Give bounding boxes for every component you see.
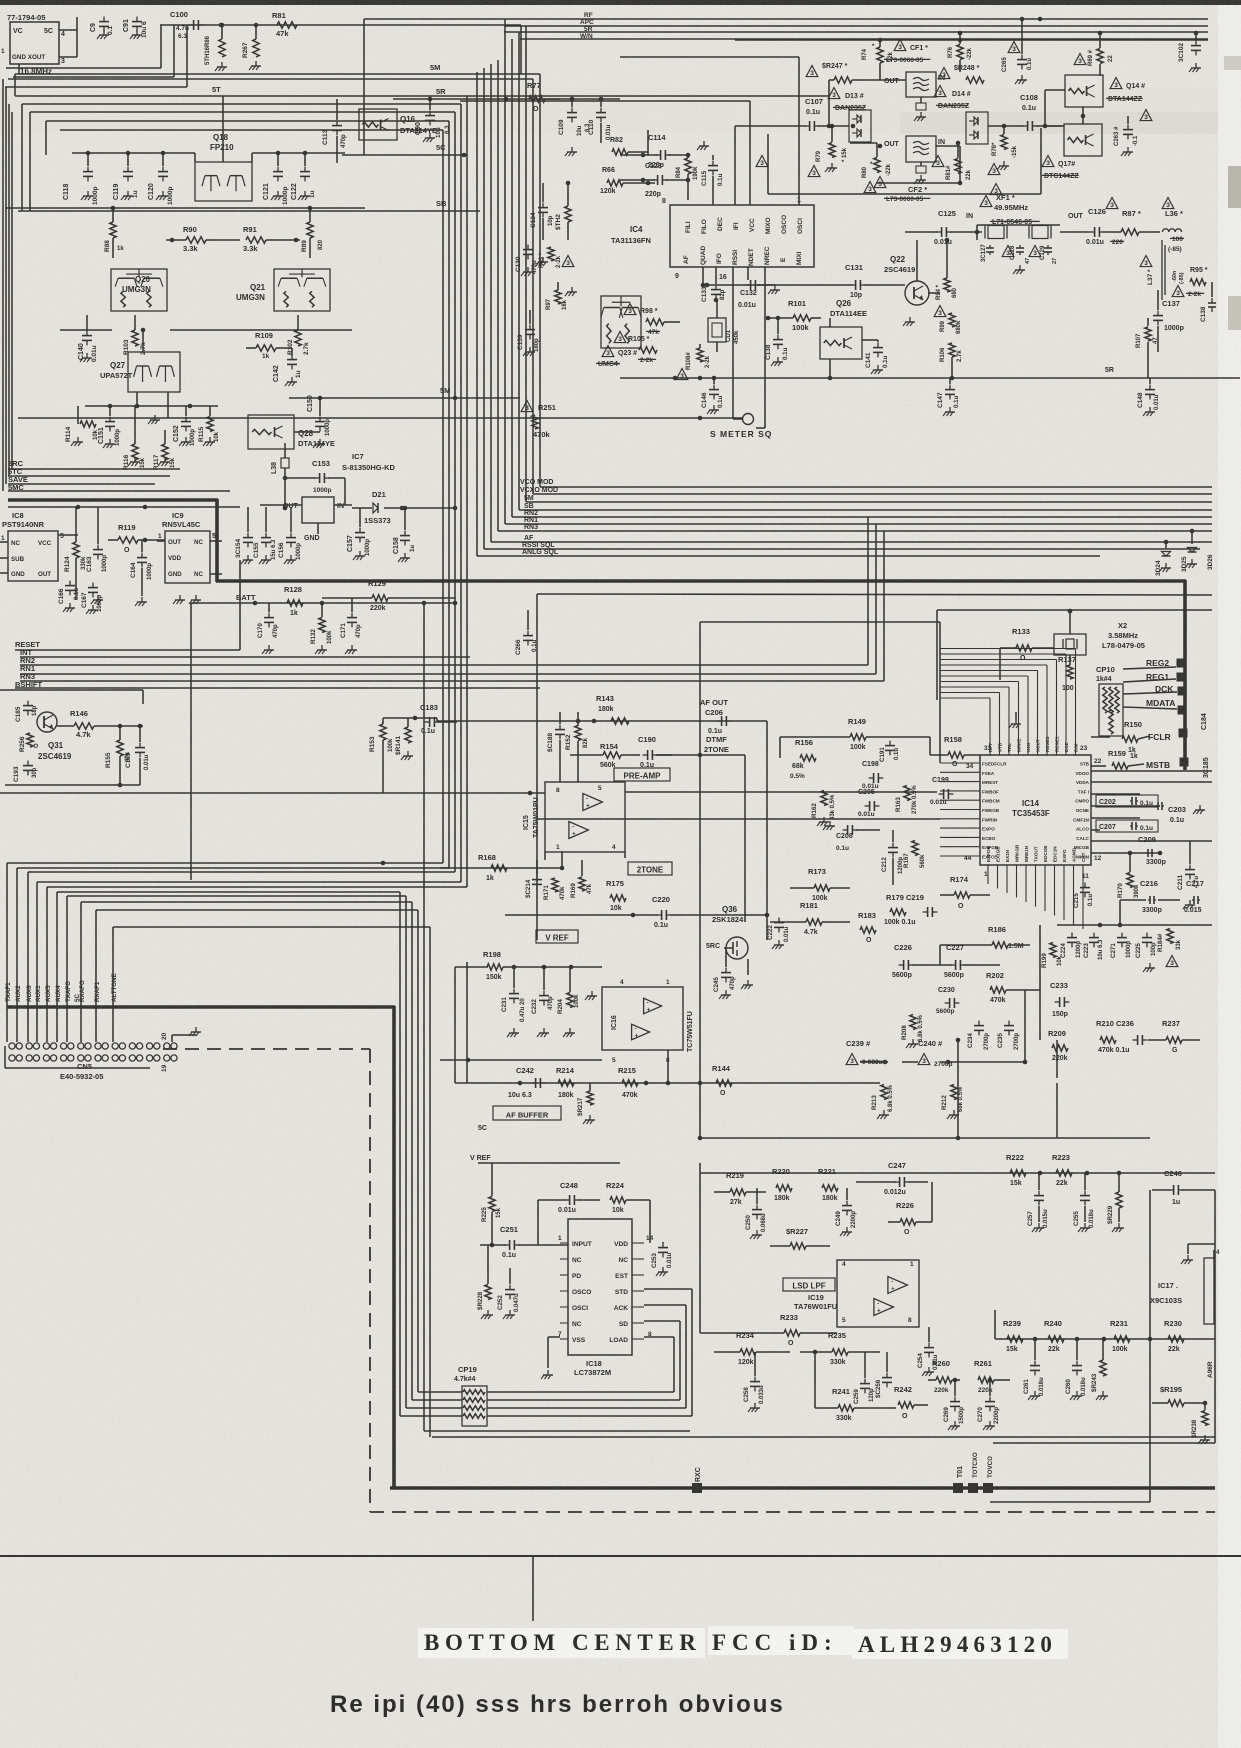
capacitor C146 (701, 376, 724, 414)
capacitor C139 (517, 310, 540, 356)
resistor R115 10k (198, 406, 220, 446)
capacitor C114 220p (640, 133, 688, 169)
resistor R97 18k (546, 282, 577, 310)
resistor R235 330k (800, 1331, 880, 1366)
capacitor C170 (257, 603, 279, 654)
diode D14 DAN235Z (934, 86, 971, 99)
bold lower-left bus (7, 1005, 395, 1009)
label 5R right (1105, 367, 1114, 374)
wire 5C row (342, 154, 467, 156)
resistor R251 470k (521, 401, 556, 440)
resistor R90 3.3k (166, 225, 240, 253)
regulator IC7 box (260, 497, 352, 542)
resistor R174 0 (940, 875, 990, 910)
vertical bus center (363, 19, 365, 155)
wire EXPO long (537, 818, 940, 820)
pads T01 TOTCXO TOVCO (953, 1452, 994, 1493)
vertical bus lower-left (399, 892, 401, 1416)
wire SB (18, 210, 480, 212)
resistor R183 0 (858, 911, 876, 944)
wire y418 smeter rail (18, 417, 742, 419)
resistor R74 22k (862, 40, 894, 80)
bus feeder verticals (539, 74, 541, 487)
resistor R77 0 (527, 81, 545, 113)
capacitor C220 (505, 895, 769, 929)
capacitor C126 (1086, 207, 1106, 246)
connector CN5 labels (5, 973, 118, 1002)
bus VCO MOD (540, 486, 1212, 488)
resistor R154 560k (570, 742, 640, 769)
resistor R91 3.3k (243, 225, 300, 253)
label DTMF 2TONE (704, 735, 729, 754)
capacitor C232 (531, 967, 554, 1037)
resistor R103 2.7k (123, 315, 147, 355)
capacitor C118 (63, 153, 99, 205)
bus VCXO MOD (533, 493, 1212, 495)
capacitor C208 (823, 821, 880, 852)
wire y87 long (5, 86, 187, 88)
resistor R133 0 (1000, 627, 1054, 680)
diode 3D24 (1155, 540, 1171, 576)
capacitor C260 (1065, 1339, 1087, 1400)
transistor Q16 DTA114YE (359, 109, 437, 140)
resistor R168 1k (478, 853, 507, 882)
resistor R261 220k (974, 1359, 1010, 1394)
footer white patch 1 (418, 1628, 705, 1658)
wire y1502 (990, 1501, 1150, 1503)
resistor R171 470k (543, 878, 566, 900)
resistor R132 100k (310, 603, 333, 654)
wire y40 segment (735, 39, 1208, 41)
capacitor C271 1000p (1110, 933, 1132, 958)
resistor R169 47k (570, 860, 593, 898)
dashed board outline (163, 1048, 370, 1050)
ic IC9 RN5VL45C (157, 511, 222, 583)
capacitor C140 (78, 315, 98, 362)
resistor R117 15k (153, 430, 176, 470)
resistor 3R141 (395, 718, 413, 760)
resistor R209 220k (1048, 1029, 1068, 1062)
wire 5T (15, 95, 830, 97)
resistor R150 1k (1122, 720, 1150, 754)
vertical bus right of audio (1039, 925, 1041, 1040)
transistor Q36 2SK1824 (706, 905, 748, 959)
resistor R105 (614, 332, 657, 365)
bold supply bus upper (8, 498, 218, 502)
capacitor C183 (420, 703, 457, 735)
wire y1339 (995, 1338, 1215, 1340)
capacitor C171 (340, 598, 362, 654)
ic IC18 LC73872M (541, 1219, 654, 1379)
scan grain overlay (0, 0, 1, 1)
capacitor C138 (765, 316, 789, 366)
wire y900 and y925 (1057, 924, 1212, 926)
resistor R181 4.7k (770, 901, 850, 936)
capacitor C254 (917, 1327, 939, 1376)
S METER SQ text (710, 429, 772, 439)
diode pair D14 box (966, 112, 988, 144)
staircase wires lower-left (7, 862, 443, 864)
resistor 3R217 (577, 1083, 595, 1124)
capacitor C109 (558, 97, 591, 156)
resistor R101 100k (766, 299, 821, 332)
resistor 3R228 (477, 1245, 493, 1319)
resistor R79 15k (808, 124, 848, 178)
resistor R80 22k (850, 143, 892, 193)
resistor R124 330k (64, 507, 87, 600)
capacitor C107 (735, 97, 855, 131)
resistor R156 68k (790, 738, 816, 780)
capacitor C155 (253, 507, 277, 564)
resistor R159 1k (1108, 749, 1144, 769)
capacitor C215 (1073, 883, 1094, 908)
capacitor C122 (291, 153, 316, 200)
capacitor 3C188 (547, 712, 565, 782)
bus SB (519, 509, 1212, 511)
resistor R222 15k (1006, 1153, 1026, 1187)
capacitor C142 (273, 348, 302, 386)
resistor network CP10 1k*4 (1096, 665, 1123, 736)
capacitor 3C102 (1178, 31, 1201, 72)
boxed label AF BUFFER (493, 1106, 561, 1120)
capacitor C245 (713, 948, 753, 999)
transistor Q21 UMG3N (236, 269, 330, 311)
resistor R93 2.2k (539, 247, 574, 268)
wire y1437 long (424, 1430, 690, 1432)
capacitor C250 (745, 1188, 767, 1239)
pad DCK (1123, 684, 1187, 696)
capacitor C113 (322, 99, 347, 163)
capacitor C212 1200p (881, 830, 904, 885)
capacitor C266 (515, 610, 538, 655)
resistor 3R243 (1091, 1339, 1108, 1400)
resistor R220 180k (772, 1167, 792, 1202)
capacitor C199 (930, 777, 953, 806)
capacitor C141 (862, 340, 889, 374)
resistor R87 (1103, 198, 1160, 236)
bus RN2 (512, 516, 1212, 518)
filter CF1 (894, 40, 928, 53)
boxed label PRE-AMP (614, 768, 670, 781)
wire top rail y25 (160, 24, 521, 26)
bus RSSI SQL (484, 548, 1200, 550)
resistor R149 100k (780, 717, 930, 758)
wire y718 (383, 717, 437, 719)
resistor 3R238 (1191, 1403, 1210, 1444)
capacitor C157 (347, 508, 371, 560)
resistor R84 190k (676, 153, 699, 200)
capacitor C110 (588, 97, 612, 143)
capacitor C231 (501, 967, 526, 1037)
capacitor C151 (98, 406, 121, 448)
bus ANLG SQL (477, 555, 1100, 557)
resistor R208 6.8k (901, 1014, 924, 1048)
capacitor C211 (1177, 841, 1200, 909)
boxed label V REF (536, 930, 578, 943)
transistor Q18 FP210 (195, 96, 252, 201)
resistor 3TH2 (555, 181, 571, 240)
capacitor C248 (538, 1181, 600, 1245)
label CF2 (874, 144, 962, 194)
resistor R260 220k (928, 1359, 960, 1394)
tri markers stray (756, 156, 1002, 196)
capacitor C166 (58, 581, 80, 612)
capacitor C156 (278, 507, 302, 564)
resistor R152 82k (565, 712, 589, 782)
wire y793 (0, 792, 545, 794)
resistor R78 15k (988, 124, 1018, 176)
capacitor C90 (415, 97, 451, 142)
capacitor C205 (858, 789, 879, 818)
resistor R240 22k (1033, 1319, 1080, 1353)
capacitor C121 (263, 153, 289, 205)
resistor R213 6.8k (871, 1084, 894, 1119)
resistor R162 33k (811, 791, 836, 827)
wire v-ref vertical (466, 962, 468, 1083)
resistor R88 1k (104, 208, 124, 258)
inductor L36 (1162, 198, 1183, 233)
capacitor C246 1u (1152, 1169, 1215, 1206)
capacitor C233 150p (1050, 981, 1069, 1018)
wire 2TONE to IC14 (699, 622, 701, 755)
footer white patch 2 (708, 1626, 854, 1655)
capacitor C223 (1083, 933, 1104, 960)
capacitor C230 5600p (936, 987, 959, 1015)
resistor R81 47k (272, 11, 297, 38)
wire y1173 upper (700, 1172, 1215, 1174)
pad FCLR (1091, 729, 1188, 743)
resistor 5TH16R86 (205, 23, 227, 71)
capacitor C203 (1156, 802, 1205, 824)
resistor R107 47 (1136, 318, 1159, 378)
resistor R221 180k (818, 1167, 838, 1202)
wire rail y405 (85, 405, 218, 407)
bus 5M (526, 501, 1212, 503)
capacitor C240 2700p (883, 990, 1028, 1068)
resistor R225 15k (481, 1163, 502, 1245)
resistor R146 4.7k (57, 709, 143, 739)
capacitor C153 + IC7 (285, 452, 396, 505)
filter CF1 box (884, 72, 945, 121)
gnd near IC14 top (1009, 712, 1021, 728)
resistor R226 0 (888, 1182, 932, 1236)
capacitor C242 (508, 1066, 545, 1099)
resistor R198 150k (455, 950, 602, 981)
wire smeter vertical (732, 267, 734, 419)
resistor R219 27k (714, 1171, 766, 1206)
resistor R155 47k (105, 726, 131, 785)
wire 5R row (393, 98, 560, 100)
capacitor C125 (905, 209, 982, 246)
wire top right rails (364, 18, 1208, 20)
resistor R204 100k (557, 967, 597, 1037)
resistor R170 390k (1117, 851, 1140, 898)
capacitor C206 AF OUT (700, 698, 731, 735)
resistor R82 (610, 137, 648, 155)
wire right edge (1214, 1190, 1216, 1443)
capacitor C253 (651, 1242, 673, 1276)
transistor Q20 UMG3N (111, 269, 167, 311)
resistor network CP19 4.7k*4 (454, 1365, 487, 1426)
wire audio y1078 (455, 1082, 880, 1084)
capacitor C115 (697, 141, 724, 205)
wires CP19 (418, 1391, 462, 1393)
label V REF lower (470, 1155, 491, 1162)
capacitor C167 (81, 583, 103, 614)
resistor R239 15k (1003, 1319, 1023, 1353)
wire 5M mid (289, 397, 520, 399)
opamp IC19 TA76W01FU (794, 1260, 919, 1327)
digital box top (937, 609, 1212, 611)
resistor R69 22 (1074, 31, 1114, 76)
resistor R199 10k (1041, 943, 1063, 969)
capacitor C108 (988, 93, 1062, 131)
wire CF bottom (768, 193, 1041, 195)
capacitor C136 (1200, 282, 1216, 322)
resistor R128 1k (284, 585, 303, 617)
wire elbows top-left (22, 103, 461, 105)
capacitor C164 (130, 540, 153, 606)
transistor Q28 DTA114YE (248, 415, 335, 449)
resistor R144 0 (712, 1064, 732, 1097)
resistor R143 180k (596, 694, 629, 724)
resistor R76 22k (948, 31, 973, 72)
vertical text C184 (1201, 713, 1208, 730)
capacitor C130 (515, 245, 538, 276)
capacitor C190 (638, 735, 672, 769)
resistor R116 15k (123, 406, 146, 470)
resistor R153 100k (369, 718, 394, 793)
diode pair D13 box (849, 110, 871, 142)
resistor R224 10k (606, 1181, 650, 1243)
pad REG1 (1123, 672, 1186, 682)
capacitor C257 (1027, 1173, 1049, 1232)
wire audio top y712 (437, 720, 767, 722)
capacitor C225 100p (1135, 933, 1157, 958)
capacitor C185 (15, 701, 38, 722)
resistor R66 120k (600, 167, 655, 195)
capacitor C226 5600p (892, 943, 913, 979)
transistor Q22 2SC4619 (884, 240, 940, 326)
resistor R234 120k (714, 1331, 790, 1366)
resistor R99 680k (940, 313, 962, 334)
resistor R223 22k (1038, 1153, 1122, 1187)
wire rail y208 (5, 207, 365, 209)
resistor R89 820 (301, 208, 324, 258)
transistor Q23 UMC4 (601, 296, 641, 357)
capacitor C224 1200p (1060, 933, 1082, 958)
S meter circle (733, 414, 754, 425)
capacitor C189 (125, 726, 150, 785)
pad RXC (692, 1467, 702, 1493)
opamp IC16 TC75W51FU (440, 979, 694, 1083)
capacitor C100 (170, 10, 223, 40)
resistor R163 270k (895, 785, 918, 814)
diode D13 DAN235Z (828, 88, 864, 101)
boxed label 2TONE (628, 862, 672, 875)
discriminator CD1 450k (708, 300, 740, 352)
wires right of IC14 (1091, 770, 1212, 772)
capacitor C227 5600p (912, 943, 1000, 979)
resistor R256 0 (19, 733, 40, 752)
resistor R186 1.5M (940, 925, 1030, 965)
capacitor C191 (879, 741, 900, 762)
wire y878 row (440, 867, 562, 869)
wire Q14 collector (1045, 125, 1064, 127)
resistor R98 (624, 304, 680, 337)
resistor R94 680 (934, 238, 958, 318)
capacitor C247 (856, 1161, 928, 1196)
resistor 3R247 (806, 63, 906, 126)
capacitor C163 (86, 507, 108, 604)
resistor R179 100k + C219 (884, 893, 937, 926)
capacitor C259 120p (853, 1352, 875, 1404)
resistor R242 0 (894, 1385, 928, 1420)
resistor R114 10k (65, 406, 99, 446)
capacitor C252 (497, 1268, 520, 1319)
transistor Q26 DTA114EE (820, 299, 867, 380)
capacitor C239 0.033 (846, 1039, 888, 1065)
capacitor C198 (862, 761, 883, 790)
capacitor C234 2700p (967, 1021, 990, 1050)
capacitor C9 (90, 17, 114, 39)
transistor Q14 DTA144ZZ (1065, 75, 1145, 107)
resistor R210 470k + C236 (1096, 1019, 1147, 1054)
resistor R95 (1190, 267, 1208, 285)
capacitor C132 0.01u (738, 267, 780, 309)
transistor Q17 DTC144ZZ (1064, 107, 1102, 156)
resistor 3R227 (770, 1227, 830, 1249)
bus AF (491, 541, 1212, 543)
capacitor C255 (1073, 1173, 1095, 1232)
capacitor C251 (480, 1225, 568, 1259)
ic IC8 PST9140NR (0, 511, 78, 581)
filter CF2 box (884, 136, 945, 184)
capacitor C150 (307, 395, 331, 448)
ic IC14 TC35453F (940, 649, 1102, 930)
pad MDATA (1123, 698, 1187, 715)
boxed capacitor C202 (1096, 795, 1158, 807)
pad REG2 (1123, 658, 1186, 669)
resistor R109 1k (246, 331, 292, 360)
bus RN3 (498, 530, 1212, 532)
capacitor C158 (393, 506, 416, 562)
capacitor C152 (173, 406, 196, 446)
resistor R267 (242, 23, 261, 70)
ic IC4 TA31136FN (611, 197, 814, 281)
capacitor C147 (937, 378, 960, 416)
resistor R173 100k (790, 867, 850, 902)
resistor R241 330k (815, 1352, 896, 1422)
resistor R230 22k (1148, 1319, 1184, 1353)
capacitor C265 (1001, 17, 1033, 84)
resistor R129 220k (322, 579, 455, 612)
resistor R119 0 (108, 523, 165, 554)
resistor R108 2.2k (676, 344, 711, 420)
capacitor C217 0.015 (1184, 879, 1204, 914)
wire DTMF second vertical (744, 755, 746, 922)
resistor 3R229 (1107, 1173, 1124, 1232)
capacitor C222 (767, 918, 790, 949)
resistor R158 0 (930, 735, 980, 768)
capacitor C91 (123, 17, 148, 39)
capacitor C261 (1023, 1339, 1045, 1400)
crystal filter XF1 (980, 193, 1028, 212)
resistor R237 0 (1148, 1019, 1200, 1054)
capacitor C123 220p (640, 163, 688, 198)
label 5C lower (478, 1125, 487, 1132)
capacitor C270 2200p (977, 1378, 1000, 1430)
